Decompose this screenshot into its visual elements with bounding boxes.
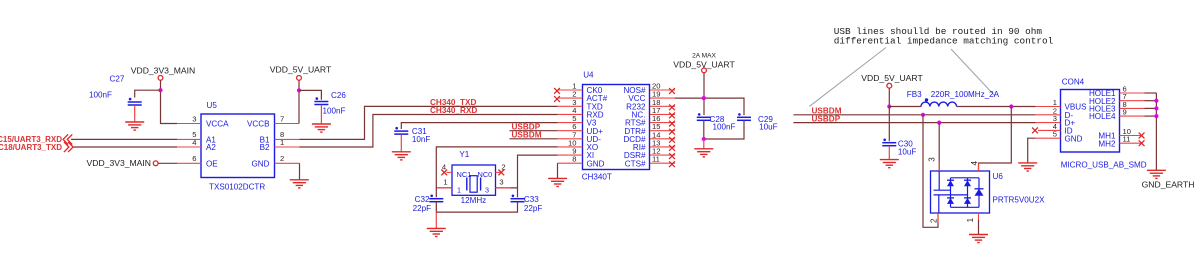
svg-text:GND_EARTH: GND_EARTH: [1142, 180, 1195, 190]
no-connect X on CON4 ID: [1032, 128, 1038, 134]
ground (C31): [392, 152, 411, 160]
net label USBDP (CON4): [812, 114, 841, 123]
power VDD_3V3_MAIN (OE): [87, 158, 159, 168]
no-connect X on U4 pin 1: [554, 88, 560, 94]
wire net USBDM (to CON4 D-): [793, 114, 1035, 116]
wire C31 to ground: [400, 134, 402, 151]
ground (C32/C33): [427, 228, 446, 236]
capacitor C27: [110, 75, 142, 105]
wire net CH340_RXD (B2 to U4 RXD): [300, 115, 558, 148]
value 100nF (C28): [713, 123, 736, 132]
wire OE power to U5 pin 6: [158, 162, 177, 164]
wire U6 pin 2 route: [923, 115, 938, 228]
U5 pins with numbers: [177, 114, 300, 163]
svg-text:VDD_3V3_MAIN: VDD_3V3_MAIN: [87, 158, 151, 168]
value 100nF (C27): [89, 91, 112, 100]
wire C33 vertical: [517, 188, 519, 197]
wire net C15/UART3_RXD to U5 pin A1: [71, 138, 177, 140]
wire C32/C33 return: [436, 202, 517, 212]
svg-text:3: 3: [192, 114, 196, 123]
junction HOLE3: [1154, 106, 1158, 110]
svg-text:TXS0102DCTR: TXS0102DCTR: [209, 183, 265, 192]
no-connect X on U4 pin 2: [554, 96, 560, 102]
junction HOLE2: [1154, 99, 1158, 103]
wire U4 GND to ground: [557, 163, 559, 178]
wire U4 XO to Y1 pin1 / C32: [436, 147, 557, 188]
capacitor C26: [314, 91, 346, 104]
power VDD_5V_UART (U5): [270, 65, 332, 81]
svg-text:1: 1: [966, 217, 975, 222]
junction USBDM / U6 pin 2: [921, 113, 925, 117]
net label CH340_TXD: [430, 98, 477, 107]
wire ground stem (C28): [703, 139, 705, 149]
no-connect X marks on U4 right pins: [669, 88, 675, 167]
U6 pins with numbers: [928, 157, 980, 223]
svg-text:C26: C26: [331, 91, 346, 100]
note text USB routing: [834, 26, 1054, 47]
svg-text:7: 7: [280, 114, 284, 123]
svg-text:CH340T: CH340T: [582, 173, 612, 182]
svg-text:22pF: 22pF: [413, 204, 432, 213]
svg-text:VDD_5V_UART: VDD_5V_UART: [270, 65, 332, 75]
svg-text:220R_100MHz_2A: 220R_100MHz_2A: [931, 90, 1000, 99]
svg-text:5: 5: [1053, 130, 1057, 139]
svg-text:NC1: NC1: [457, 170, 472, 179]
svg-text:VDD_3V3_MAIN: VDD_3V3_MAIN: [131, 65, 195, 75]
value 100nF (C26): [323, 107, 346, 116]
wire net USBDP (U4 UD+): [510, 130, 558, 132]
wire power to VCC rail: [703, 73, 705, 115]
svg-text:4: 4: [192, 138, 196, 147]
svg-text:1: 1: [280, 138, 284, 147]
svg-text:U5: U5: [207, 101, 218, 110]
svg-text:22pF: 22pF: [524, 204, 543, 213]
wire ground stem (C32): [435, 212, 437, 228]
svg-text:1: 1: [457, 186, 461, 195]
no-connect X on CON4 MH1: [1139, 133, 1145, 139]
svg-text:C18/UART3_TXD: C18/UART3_TXD: [0, 143, 62, 152]
svg-text:C33: C33: [524, 195, 539, 204]
svg-text:11: 11: [652, 155, 660, 164]
op-amp U5 TXS0102DCTR body: [201, 101, 275, 192]
wire FB3 to CON4 VBUS: [957, 106, 1036, 108]
ground (C30): [880, 160, 899, 168]
power VDD_3V3_MAIN: [131, 65, 195, 80]
svg-text:10nF: 10nF: [412, 135, 431, 144]
ground GND_EARTH: [1142, 170, 1195, 189]
svg-text:3: 3: [485, 186, 489, 195]
svg-text:2: 2: [280, 154, 284, 163]
wire U6 pin 3 route: [938, 123, 940, 171]
junction USBDP / U6 pin 3: [937, 121, 941, 125]
transistor U6 PRTR5V0U2X body: [931, 171, 1046, 213]
wire C30 to ground: [888, 146, 890, 160]
off-page connector C18/UART3_TXD: [0, 142, 73, 152]
wire C26 branch: [299, 90, 321, 99]
wire VDD_3V3_MAIN to U5 VCCA: [161, 81, 178, 124]
ground (U5 pin 2): [290, 180, 309, 188]
svg-text:10uF: 10uF: [759, 123, 778, 132]
power VDD_5V_UART (VBUS): [861, 73, 923, 88]
ground (C26): [312, 124, 331, 132]
wire U6 pin 1 to ground: [978, 220, 980, 235]
wire VDD_5V_UART to U5 VCCB: [298, 81, 300, 124]
wire U6 pin 4 route: [979, 107, 1012, 172]
svg-text:CH340_RXD: CH340_RXD: [430, 106, 477, 115]
capacitor C28: [697, 113, 725, 124]
callout line right: [951, 49, 995, 96]
wire VBUS from power: [888, 88, 890, 106]
ground (U6): [969, 235, 988, 243]
net label USBDP (U4): [512, 123, 541, 132]
svg-text:OE: OE: [206, 159, 218, 168]
wire U4 V3 to C31: [401, 123, 557, 129]
wire U4 VCC rail: [675, 98, 744, 115]
crystal Y1 body: [452, 150, 496, 205]
svg-text:HOLE4: HOLE4: [1089, 112, 1116, 121]
svg-text:MH2: MH2: [1098, 139, 1116, 148]
svg-text:MICRO_USB_AB_SMD: MICRO_USB_AB_SMD: [1061, 160, 1147, 169]
U4 pins with numbers: [558, 82, 676, 164]
wire C27 to ground: [134, 105, 136, 122]
wire C27 branch: [135, 90, 161, 97]
wire CON4 GND to ground: [1028, 138, 1036, 163]
svg-text:2: 2: [930, 218, 939, 223]
svg-text:A2: A2: [206, 143, 216, 152]
svg-text:3: 3: [928, 157, 937, 162]
ground (C28/C29): [694, 149, 713, 157]
net label CH340_RXD: [430, 106, 477, 115]
svg-text:GND: GND: [1065, 134, 1083, 143]
power VDD_5V_UART (U4 VCC): [673, 53, 735, 73]
svg-text:U6: U6: [993, 172, 1004, 181]
junction HOLE4: [1154, 114, 1158, 118]
capacitor C32: [415, 195, 444, 205]
wire U4 XI to Y1 pin3 / C33: [496, 155, 558, 188]
junction VDD_5V_UART / C26: [297, 88, 301, 92]
wire net C18/UART3_TXD to U5 pin A2: [73, 146, 177, 148]
callout line left: [810, 48, 887, 107]
svg-text:FB3: FB3: [907, 90, 922, 99]
svg-text:4: 4: [970, 161, 979, 166]
svg-text:NC0: NC0: [478, 170, 493, 179]
wire U5 GND to ground: [299, 163, 301, 180]
value 10uF (C30): [898, 147, 917, 156]
no-connect X on Y1 pin 4: [441, 170, 447, 176]
svg-text:C32: C32: [415, 195, 430, 204]
value 22pF (C33): [524, 204, 543, 213]
capacitor C31: [394, 127, 427, 136]
wire net USBDP (to CON4 D+): [793, 122, 1035, 124]
svg-text:PRTR5V0U2X: PRTR5V0U2X: [993, 195, 1046, 204]
svg-text:C27: C27: [110, 75, 125, 84]
junction VDD_3V3_MAIN / C27: [158, 88, 162, 92]
net label USBDM (U4): [512, 131, 542, 140]
ground (C27): [125, 122, 144, 130]
svg-text:11: 11: [1123, 135, 1131, 144]
svg-text:9: 9: [1123, 108, 1127, 117]
net label USBDM (CON4): [812, 107, 842, 116]
IC U4 CH340T body: [582, 71, 650, 182]
value 10nF (C31): [412, 135, 431, 144]
junction VCC rail: [702, 96, 706, 100]
svg-text:8: 8: [572, 155, 576, 164]
ground (U4 GND): [548, 178, 567, 186]
svg-text:100nF: 100nF: [89, 91, 112, 100]
off-page connector C15/UART3_RXD: [0, 134, 72, 144]
svg-text:Y1: Y1: [459, 150, 469, 159]
svg-text:VDD_5V_UART: VDD_5V_UART: [861, 73, 923, 83]
svg-text:VCCA: VCCA: [206, 120, 229, 129]
wire net USBDM (U4 UD-): [510, 138, 558, 140]
wire VBUS to FB3: [889, 106, 921, 108]
ground (CON4 GND): [1018, 163, 1037, 171]
wire net CH340_TXD (B1 to U4 TXD): [300, 106, 558, 139]
connector CON4 MICRO_USB_AB_SMD body: [1061, 77, 1147, 169]
wire C28/C29 return: [704, 121, 744, 139]
junction C28 return: [702, 137, 706, 141]
capacitor C30: [882, 139, 913, 149]
svg-text:1: 1: [443, 177, 447, 186]
ferrite bead FB3: [907, 90, 957, 107]
svg-text:CON4: CON4: [1062, 77, 1085, 86]
wire C30 branch: [888, 107, 890, 142]
value 220R_100MHz_2A (FB3): [931, 90, 1000, 99]
svg-text:USBDM: USBDM: [512, 131, 542, 140]
value 22pF (C32): [413, 204, 432, 213]
svg-text:B2: B2: [260, 143, 270, 152]
Y1 pins with numbers: [437, 162, 511, 188]
svg-text:6: 6: [192, 154, 196, 163]
junction VBUS / C30: [887, 104, 891, 108]
svg-text:100nF: 100nF: [323, 107, 346, 116]
svg-text:3: 3: [499, 177, 503, 186]
no-connect X on Y1 pin 2: [498, 170, 504, 176]
svg-text:GND: GND: [587, 159, 605, 168]
svg-text:10uF: 10uF: [898, 147, 917, 156]
svg-text:VCCB: VCCB: [247, 120, 270, 129]
svg-text:12MHz: 12MHz: [461, 196, 487, 205]
value 10uF (C29): [759, 123, 778, 132]
wire CON4 holes to GND_EARTH: [1145, 93, 1157, 170]
no-connect X on CON4 MH2: [1139, 140, 1145, 146]
svg-text:USBDP: USBDP: [812, 114, 841, 123]
junction VBUS / U6 pin 4: [1009, 104, 1013, 108]
capacitor C33: [511, 195, 540, 205]
svg-text:CTS#: CTS#: [625, 159, 646, 168]
svg-text:U4: U4: [583, 71, 594, 80]
svg-text:GND: GND: [252, 159, 270, 168]
CON4 pins with numbers: [1036, 85, 1145, 144]
wire C32 vertical: [435, 188, 437, 197]
capacitor C29: [737, 113, 773, 124]
svg-text:100nF: 100nF: [713, 123, 736, 132]
wire C26 to ground: [320, 105, 322, 124]
svg-text:differential impedance matchin: differential impedance matching control: [834, 36, 1054, 47]
